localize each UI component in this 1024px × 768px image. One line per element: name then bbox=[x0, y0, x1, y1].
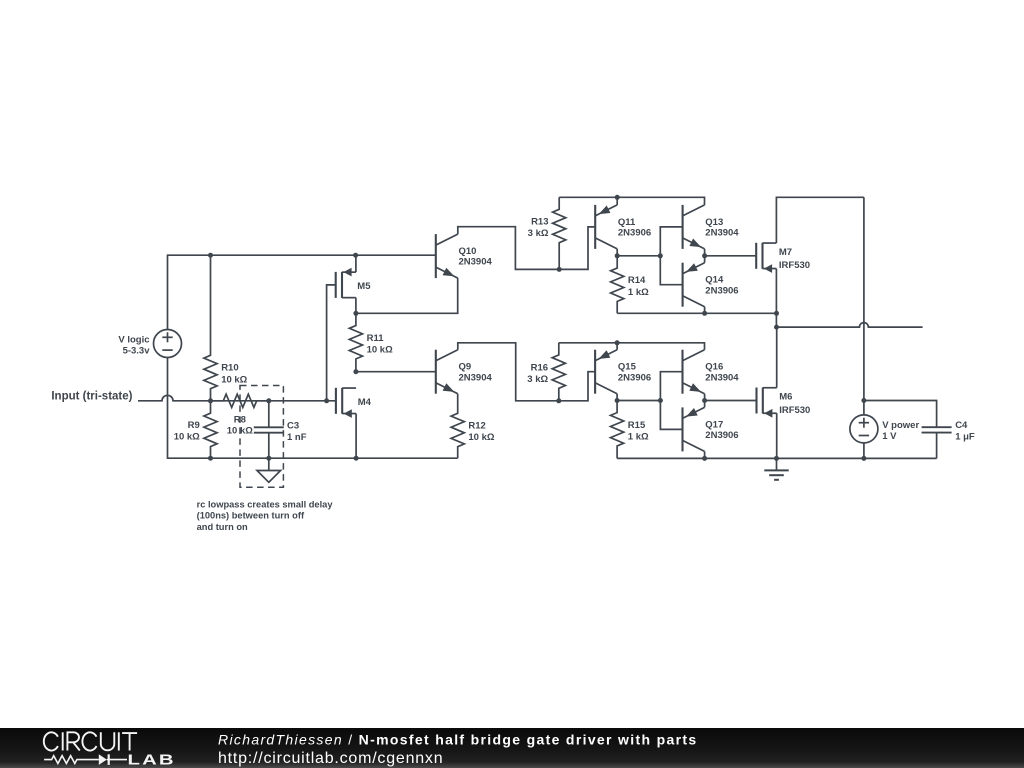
svg-text:2N3906: 2N3906 bbox=[705, 285, 738, 296]
svg-text:R10: R10 bbox=[221, 363, 238, 374]
node M5 gate riser junction on input row bbox=[324, 398, 329, 403]
svg-text:2N3904: 2N3904 bbox=[705, 228, 739, 239]
wire Q17 emitter lead bbox=[704, 401, 706, 408]
capacitor C3 bbox=[254, 401, 284, 458]
wire emitters to M6 gate bbox=[705, 400, 757, 402]
capacitor C4 bbox=[922, 427, 952, 458]
label Q16 2N3904 bbox=[705, 362, 739, 384]
node M6 source junction bbox=[774, 456, 779, 461]
transistor M6 (NMOS) bbox=[757, 388, 777, 418]
transistor Q11 (PNP) bbox=[595, 205, 617, 249]
logo letter C bbox=[82, 732, 96, 750]
label Q10 2N3904 bbox=[459, 246, 493, 268]
resistor R11 bbox=[349, 313, 362, 371]
wire Q14 emitter lead bbox=[704, 256, 706, 263]
node R10/R9 input junction bbox=[208, 398, 213, 403]
svg-text:R13: R13 bbox=[531, 217, 548, 228]
resistor R10 bbox=[204, 255, 217, 401]
svg-text:Q14: Q14 bbox=[705, 275, 724, 286]
transistor Q10 (NPN) bbox=[436, 234, 458, 278]
node M5 drain junction bbox=[353, 311, 358, 316]
net label Input (tri-state) bbox=[51, 390, 132, 402]
svg-text:(100ns) between turn off: (100ns) between turn off bbox=[197, 511, 305, 521]
resistor R16 bbox=[552, 343, 565, 401]
label Q14 2N3906 bbox=[705, 275, 738, 297]
wire M6 drain up bbox=[776, 327, 778, 388]
label R16 3 kOhm bbox=[527, 362, 548, 385]
node R9 ground junction bbox=[208, 456, 213, 461]
logo letter C bbox=[44, 732, 58, 750]
node output junction bbox=[774, 325, 779, 330]
resistor R12 bbox=[451, 394, 464, 458]
label Q15 2N3906 bbox=[618, 362, 651, 384]
svg-text:M5: M5 bbox=[357, 281, 371, 292]
transistor Q13 (NPN) bbox=[683, 205, 705, 249]
svg-text:2N3904: 2N3904 bbox=[459, 372, 493, 383]
svg-text:2N3906: 2N3906 bbox=[618, 228, 651, 239]
label R10 10 kOhm bbox=[221, 363, 247, 386]
wire Q13 emitter lead bbox=[704, 249, 706, 256]
node base tie junction lower bbox=[658, 398, 663, 403]
node C3 bottom junction bbox=[266, 456, 271, 461]
svg-text:10 kΩ: 10 kΩ bbox=[174, 432, 200, 443]
wire lower rail segment bbox=[559, 343, 705, 350]
wire M7 source down bbox=[775, 269, 777, 328]
svg-text:Q10: Q10 bbox=[459, 246, 477, 257]
voltage source V1 V logic bbox=[154, 330, 182, 358]
svg-text:http://circuitlab.com/cgennxn: http://circuitlab.com/cgennxn bbox=[218, 750, 443, 767]
svg-text:and turn on: and turn on bbox=[197, 522, 248, 532]
svg-text:LAB: LAB bbox=[128, 752, 176, 768]
node R10/R9 top junction bbox=[208, 253, 213, 258]
transistor Q9 (NPN) bbox=[436, 350, 458, 394]
wire Q10 collector route to Q11 base bbox=[458, 227, 595, 270]
logo resistor squiggle bbox=[44, 756, 99, 764]
svg-text:2N3904: 2N3904 bbox=[459, 257, 493, 268]
wire M5 gate riser bbox=[327, 285, 336, 401]
svg-text:RichardThiessen / N-mosfet hal: RichardThiessen / N-mosfet half bridge g… bbox=[218, 732, 697, 748]
wire output row with hop over V power riser bbox=[777, 323, 923, 328]
svg-text:R15: R15 bbox=[628, 420, 646, 431]
svg-text:M7: M7 bbox=[779, 247, 792, 258]
wire Q16 emitter lead bbox=[704, 394, 706, 401]
svg-text:3 kΩ: 3 kΩ bbox=[527, 374, 548, 385]
logo letter R bbox=[67, 732, 79, 750]
wire Q11 collector lead bbox=[616, 249, 618, 256]
svg-text:C4: C4 bbox=[955, 420, 968, 431]
svg-text:Q16: Q16 bbox=[705, 362, 723, 373]
svg-text:5-3.3v: 5-3.3v bbox=[123, 346, 151, 357]
ground left (signal ground triangle) bbox=[257, 458, 281, 482]
wire Q17 collector lead bbox=[704, 451, 706, 458]
logo text LAB bbox=[128, 752, 176, 768]
label V power 1 V bbox=[882, 420, 919, 442]
wire M7 drain up and top rail right segment bbox=[776, 197, 864, 243]
transistor M7 (NMOS) bbox=[756, 243, 776, 273]
annotation text rc lowpass bbox=[197, 500, 334, 532]
logo letter I bbox=[62, 732, 64, 750]
wire Q9 collector route to Q15 base bbox=[458, 343, 595, 401]
logo letter T bbox=[122, 733, 137, 750]
wire Q15 collector lead bbox=[616, 394, 618, 401]
svg-text:V power: V power bbox=[882, 420, 919, 431]
svg-text:Q15: Q15 bbox=[618, 362, 637, 373]
label R13 3 kOhm bbox=[528, 217, 549, 240]
wire Q15 emitter lead bbox=[616, 343, 618, 350]
logo diode bbox=[99, 754, 107, 765]
ground right (earth ground) bbox=[764, 458, 788, 479]
node V power bottom junction bbox=[861, 456, 866, 461]
wire Q16/Q17 base tie bbox=[660, 372, 682, 430]
label R11 10 kOhm bbox=[367, 333, 393, 356]
label Q13 2N3904 bbox=[705, 217, 739, 239]
label R14 1 kOhm bbox=[628, 275, 649, 298]
node M4 drain junction bbox=[353, 369, 358, 374]
svg-text:Q13: Q13 bbox=[705, 217, 723, 228]
svg-text:M4: M4 bbox=[358, 397, 372, 408]
wire M4 source down to ground rail bbox=[355, 414, 357, 459]
node C3 top junction bbox=[266, 398, 271, 403]
wire row Q11 collector to base tie bbox=[617, 255, 660, 257]
node Q13/Q14 emitter junction bbox=[702, 253, 707, 258]
wire M6 source down bbox=[776, 413, 778, 458]
resistor R8 bbox=[211, 394, 269, 407]
node M5 source junction bbox=[353, 253, 358, 258]
svg-text:3 kΩ: 3 kΩ bbox=[528, 228, 549, 239]
label R12 10 kOhm bbox=[468, 420, 494, 443]
transistor M5 (NMOS, flipped) bbox=[336, 268, 356, 298]
svg-text:R9: R9 bbox=[188, 420, 200, 431]
node M7 source junction bbox=[774, 311, 779, 316]
node Q16/Q17 emitter junction bbox=[702, 398, 707, 403]
transistor Q16 (NPN) bbox=[683, 350, 705, 394]
wire M4 drain row to Q9 base bbox=[356, 371, 436, 373]
node Q14 collector junction bbox=[702, 311, 707, 316]
node Q11 emitter junction bbox=[615, 195, 620, 200]
label C4 1 uF bbox=[955, 420, 975, 443]
svg-text:2N3906: 2N3906 bbox=[705, 430, 738, 441]
node M4 source junction bbox=[354, 456, 359, 461]
resistor R9 bbox=[204, 401, 217, 458]
wire bottom right rail bbox=[617, 457, 937, 459]
logo letter U bbox=[101, 732, 115, 750]
svg-text:1 nF: 1 nF bbox=[287, 432, 307, 443]
svg-text:Q11: Q11 bbox=[618, 217, 636, 228]
wire Q10 emitter row bbox=[356, 278, 458, 313]
wire Q13/Q14 base tie bbox=[660, 227, 682, 285]
label Q9 2N3904 bbox=[459, 362, 493, 384]
svg-text:Q9: Q9 bbox=[459, 362, 472, 373]
resistor R13 bbox=[553, 197, 566, 269]
resistor R14 bbox=[611, 256, 624, 313]
footer bar background bbox=[0, 728, 1024, 768]
svg-text:1 μF: 1 μF bbox=[955, 432, 975, 443]
svg-text:IRF530: IRF530 bbox=[779, 405, 810, 416]
wire Q11 emitter lead bbox=[616, 197, 618, 205]
label Q17 2N3906 bbox=[705, 419, 738, 441]
svg-text:IRF530: IRF530 bbox=[779, 260, 810, 271]
label R15 1 kOhm bbox=[628, 420, 649, 443]
voltage source V2 V power bbox=[850, 415, 878, 443]
label M7 IRF530 bbox=[779, 247, 810, 271]
node Q15 collector junction bbox=[615, 398, 620, 403]
svg-text:10 kΩ: 10 kΩ bbox=[221, 374, 247, 385]
svg-text:rc lowpass creates small delay: rc lowpass creates small delay bbox=[197, 500, 334, 510]
svg-text:Input (tri-state): Input (tri-state) bbox=[51, 390, 132, 402]
wire upper mid rail bbox=[617, 312, 776, 314]
svg-text:1 kΩ: 1 kΩ bbox=[628, 432, 649, 443]
svg-text:Q17: Q17 bbox=[705, 419, 723, 430]
wire V logic top rail bbox=[168, 255, 436, 329]
svg-text:C3: C3 bbox=[287, 421, 299, 432]
wire C4 top bbox=[864, 401, 937, 428]
label M4 bbox=[358, 397, 372, 408]
wire Q14 collector lead bbox=[704, 307, 706, 314]
svg-text:R16: R16 bbox=[531, 362, 548, 373]
svg-text:1 V: 1 V bbox=[882, 431, 897, 442]
svg-text:1 kΩ: 1 kΩ bbox=[628, 287, 649, 298]
wire row Q15 collector to base tie bbox=[617, 400, 660, 402]
node R16 bottom junction bbox=[556, 398, 561, 403]
transistor Q17 (PNP) bbox=[683, 407, 705, 451]
node Q17 collector junction bbox=[702, 456, 707, 461]
node Q15 emitter junction bbox=[615, 340, 620, 345]
wire emitters to M7 gate bbox=[705, 255, 757, 257]
logo letter I bbox=[118, 732, 120, 750]
wire M5 source up to V logic rail bbox=[355, 255, 357, 272]
svg-text:M6: M6 bbox=[779, 392, 792, 403]
svg-text:V logic: V logic bbox=[118, 335, 149, 346]
label V logic 5-3.3v bbox=[118, 335, 150, 357]
svg-text:10 kΩ: 10 kΩ bbox=[468, 432, 494, 443]
transistor M4 (NMOS) bbox=[336, 388, 356, 418]
node Q11 collector junction bbox=[615, 253, 620, 258]
transistor Q15 (PNP) bbox=[595, 350, 617, 394]
wire V power bottom lead bbox=[863, 443, 865, 459]
node R13 bottom junction bbox=[557, 267, 562, 272]
annotation dashed box bbox=[240, 386, 283, 488]
svg-text:R14: R14 bbox=[628, 275, 646, 286]
wire input row with hop over V-logic wire bbox=[138, 395, 336, 401]
wire V power riser bbox=[863, 197, 865, 415]
svg-text:10 kΩ: 10 kΩ bbox=[367, 345, 393, 356]
wire V logic bottom / left ground rail bbox=[168, 358, 458, 459]
wire M5 drain down bbox=[355, 298, 357, 314]
resistor R15 bbox=[611, 401, 624, 459]
label R8 10 kOhm bbox=[227, 415, 253, 437]
transistor Q14 (PNP) bbox=[683, 263, 705, 307]
label C3 1 nF bbox=[287, 421, 307, 444]
wire upper rail left segment bbox=[559, 197, 704, 205]
label M5 bbox=[357, 281, 371, 292]
label Q11 2N3906 bbox=[618, 217, 651, 239]
label M6 IRF530 bbox=[779, 392, 810, 416]
svg-text:2N3904: 2N3904 bbox=[705, 372, 739, 383]
svg-text:R11: R11 bbox=[367, 333, 385, 344]
svg-text:2N3906: 2N3906 bbox=[618, 372, 651, 383]
label R9 10 kOhm bbox=[174, 420, 200, 443]
node V power top junction bbox=[861, 398, 866, 403]
svg-text:R12: R12 bbox=[468, 420, 485, 431]
node base tie junction upper bbox=[658, 253, 663, 258]
